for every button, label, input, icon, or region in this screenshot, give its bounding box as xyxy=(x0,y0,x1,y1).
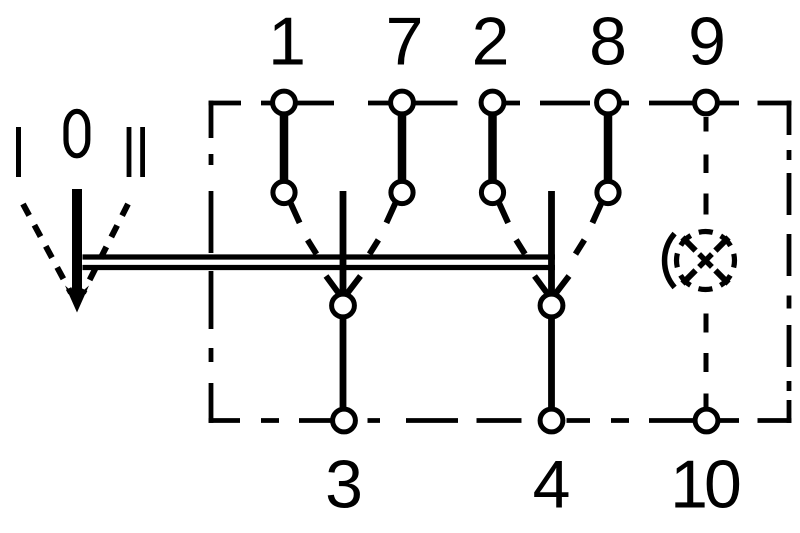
svg-text:3: 3 xyxy=(325,447,363,523)
svg-text:7: 7 xyxy=(386,4,424,80)
svg-text:9: 9 xyxy=(688,4,726,80)
svg-text:4: 4 xyxy=(533,447,571,523)
svg-text:1: 1 xyxy=(268,4,306,80)
svg-text:2: 2 xyxy=(472,4,510,80)
svg-text:10: 10 xyxy=(670,447,740,523)
svg-text:8: 8 xyxy=(589,4,627,80)
